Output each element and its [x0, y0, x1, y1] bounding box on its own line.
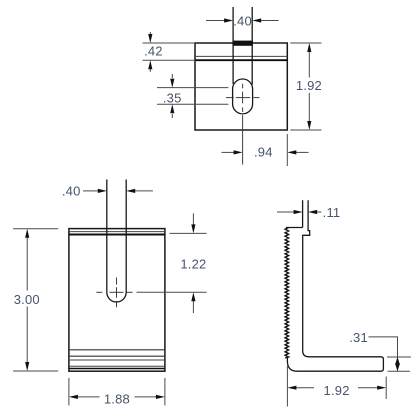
dimension 3.00 bottom extension line [13, 370, 58, 372]
dimension 1.92 side left extension line [286, 366, 288, 407]
svg-text:.11: .11 [323, 205, 341, 220]
dimension 1.88 line right segment [135, 396, 158, 398]
dimension .31 leader [369, 337, 398, 371]
top view slot opening dark bar [233, 41, 253, 46]
svg-text:.40: .40 [233, 14, 252, 29]
dimension .35 top arrow [171, 74, 173, 78]
dimension 1.92 side line left segment [296, 387, 314, 389]
front view bottom bend line 3 [69, 359, 165, 361]
svg-text:1.92: 1.92 [324, 383, 350, 398]
dimension 1.92 top extension line [290, 42, 321, 44]
svg-text:1.22: 1.22 [180, 257, 206, 272]
dimension 1.22 top arrow [192, 213, 194, 225]
dimension .94 left extension line (slot centerline) [242, 115, 244, 164]
side view top tab right edge + step + inner edge + flange [287, 200, 383, 371]
front view top bend tangent (thin) [69, 231, 165, 233]
slot horizontal centerline [96, 291, 132, 293]
svg-text:3.00: 3.00 [14, 292, 40, 307]
svg-text:.94: .94 [254, 144, 273, 159]
dimension .35 bottom arrow [171, 114, 173, 118]
dimension .40 front left arrow [83, 190, 98, 192]
svg-text:.31: .31 [349, 330, 368, 345]
dimension 1.92 dimension line upper segment [308, 51, 310, 78]
obround vertical centerline [242, 84, 244, 112]
svg-text:1.88: 1.88 [104, 392, 130, 407]
dimension .42 bottom arrow [149, 69, 151, 72]
svg-text:.42: .42 [144, 44, 163, 59]
dimension 3.00 top extension line [13, 228, 58, 230]
dimension .31 top extension line [387, 356, 411, 358]
side view top tab left edge [302, 200, 304, 227]
obround hole in flange [233, 79, 253, 114]
dimension .42 top arrow [149, 32, 151, 35]
front view top bend line (dark) [69, 234, 165, 236]
dimension 3.00 line upper segment [26, 237, 28, 291]
front view slot outline [107, 180, 126, 303]
dimension 1.88 line left segment [77, 396, 100, 398]
dimension .11 right arrow [317, 211, 322, 213]
dimension 3.00 line lower segment [26, 307, 28, 364]
dimension .40 right arrow [261, 20, 279, 22]
front view bottom bend line 4 [69, 365, 165, 367]
dimension .31 up arrow [395, 357, 400, 365]
dimension .35 top extension line [157, 87, 228, 89]
svg-text:.35: .35 [163, 90, 182, 105]
top view slot left edge / extension line [232, 7, 234, 84]
side view top horizontal edge [286, 227, 303, 229]
top view bend line (dark) [195, 59, 287, 61]
front view outline [69, 229, 165, 372]
side view serrated back edge [285, 228, 289, 359]
dimension .94 left arrow [222, 151, 235, 153]
dimension .35 bottom extension line [157, 103, 228, 105]
obround horizontal centerline [226, 97, 260, 99]
top view slot right edge / extension line [251, 7, 253, 85]
front view bottom bend line 1 [69, 349, 165, 351]
top view bend tangent line (thin) [195, 55, 287, 57]
dimension 1.22 top extension line [170, 232, 207, 234]
svg-text:1.92: 1.92 [296, 78, 322, 93]
svg-text:.40: .40 [62, 184, 81, 199]
dimension 1.22 bottom extension line [137, 291, 207, 293]
slot vertical centerline [116, 278, 118, 308]
dimension .11 left arrow [277, 211, 294, 213]
dimension 1.88 left extension line [68, 378, 70, 406]
dimension .94 right extension line [286, 134, 288, 166]
dimension .42 top extension line [143, 42, 195, 44]
dimension 1.92 dimension line lower segment [308, 93, 310, 122]
dimension 1.92 side right extension line [385, 377, 387, 400]
dimension .40 left arrow [206, 20, 225, 22]
dimension .42 bottom extension line [143, 59, 195, 61]
top view outline [195, 43, 287, 130]
dimension .31 down arrow [395, 364, 400, 372]
dimension 1.92 side line right segment [358, 387, 378, 389]
dimension .94 right arrow [296, 151, 309, 153]
dimension .40 front right arrow [135, 190, 153, 192]
dimension 1.92 bottom extension line [290, 129, 321, 131]
dimension 1.88 right extension line [164, 378, 166, 406]
front view bottom bend line 5 (dark) [69, 368, 165, 370]
front view bottom bend line 2 [69, 355, 165, 357]
dimension 1.22 bottom arrow [192, 301, 194, 314]
dimension .31 bottom extension line [388, 370, 410, 372]
